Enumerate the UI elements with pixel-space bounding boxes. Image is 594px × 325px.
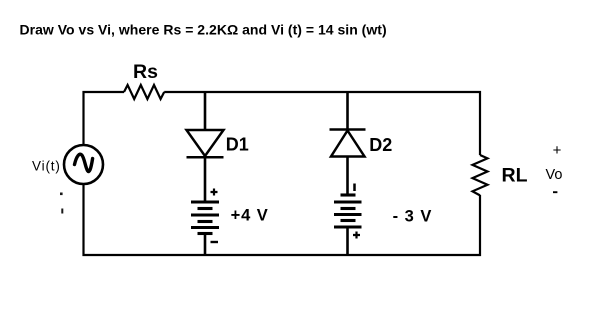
- wire: top rail left segment (source to Rs): [84, 92, 125, 145]
- stray dot 1: [60, 193, 63, 196]
- svg-text:+: +: [553, 142, 562, 159]
- svg-text:Vo: Vo: [546, 167, 563, 183]
- svg-text:Vi(t): Vi(t): [32, 159, 61, 174]
- wire: B1 to bottom rail: [204, 234, 207, 257]
- svg-text:D2: D2: [369, 135, 392, 155]
- svg-text:RL: RL: [502, 165, 528, 187]
- stray dot 2: [61, 209, 63, 214]
- wire: D1 branch top: [204, 92, 207, 130]
- Vo minus label: [553, 191, 557, 193]
- resistor Rs: [124, 85, 164, 99]
- battery B2 (-3V): [334, 195, 362, 227]
- wire: bottom rail (D1 node to D2 node to bottom-right corner): [205, 195, 480, 255]
- wire: top rail right segment (Rs to top-right corner): [164, 92, 480, 155]
- sine symbol: [75, 154, 93, 171]
- wire: B2 to bottom rail: [346, 227, 349, 256]
- wire: D2 branch top: [346, 92, 349, 129]
- wire: D2 to battery B2: [346, 157, 349, 196]
- source Vi(t): [64, 145, 103, 184]
- B2 plus sign: [353, 232, 360, 239]
- wire: left vertical bottom (source to bottom rail): [84, 184, 206, 255]
- svg-text:+4 V: +4 V: [231, 207, 269, 225]
- resistor RL: [473, 155, 488, 195]
- svg-text:D1: D1: [226, 135, 249, 155]
- diode D2: [331, 131, 365, 157]
- diode D2 cathode bar: [330, 128, 366, 131]
- svg-text:- 3 V: - 3 V: [393, 207, 433, 225]
- B1 plus sign: [211, 189, 218, 196]
- svg-text:Rs: Rs: [133, 61, 158, 83]
- battery B1 (+4V): [191, 202, 219, 234]
- B2 minus tick: [353, 184, 356, 192]
- B1 minus sign: [211, 241, 219, 243]
- wire: D1 to battery B1: [204, 157, 207, 202]
- svg-text:Draw Vo vs Vi, where Rs = 2.2K: Draw Vo vs Vi, where Rs = 2.2KΩ and Vi (…: [20, 22, 387, 38]
- diode D1: [187, 130, 224, 156]
